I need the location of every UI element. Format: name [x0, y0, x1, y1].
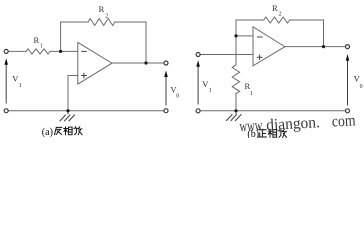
svg-text:V: V	[354, 73, 361, 83]
svg-text:R: R	[245, 81, 251, 91]
svg-text:0: 0	[360, 84, 363, 90]
svg-text:R: R	[272, 3, 278, 13]
svg-text:1: 1	[19, 83, 22, 89]
svg-text:R: R	[34, 35, 40, 45]
svg-text:2: 2	[105, 14, 108, 20]
svg-text:1: 1	[209, 88, 212, 94]
svg-text:com: com	[331, 112, 356, 130]
svg-text:diangon.: diangon.	[266, 114, 320, 134]
svg-text:R: R	[99, 4, 105, 14]
svg-text:(a): (a)	[42, 127, 53, 138]
svg-text:V: V	[12, 73, 19, 83]
svg-text:www.: www.	[239, 117, 265, 135]
svg-text:1: 1	[40, 44, 43, 50]
svg-text:2: 2	[279, 12, 282, 18]
svg-text:0: 0	[176, 94, 179, 100]
svg-text:1: 1	[250, 91, 253, 97]
